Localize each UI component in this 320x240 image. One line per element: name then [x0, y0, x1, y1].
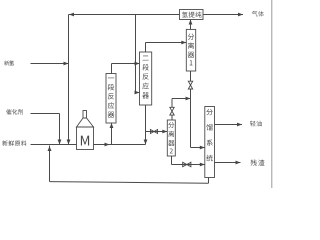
wire into fractionation: [191, 147, 205, 149]
pump body: [77, 127, 94, 150]
arrow reactor2 bottom into feed line: [144, 140, 148, 145]
arrow into reactor1 bottom: [110, 123, 114, 128]
wire offgas line: [203, 14, 243, 16]
wire reactor2 branch to separator2: [146, 131, 168, 133]
page edge line right: [271, 0, 273, 188]
box separator1 分离器1: [186, 29, 195, 71]
box fractionation 分馏系统: [205, 107, 215, 178]
arrow into fractionation feed: [200, 146, 205, 150]
wire catalyst downcomer: [59, 114, 61, 145]
wire reactor1 top outlet: [112, 64, 140, 74]
valve V1 below separator1: [188, 81, 192, 89]
wire H2 stub into reactor2: [136, 92, 140, 94]
arrow into separator2: [162, 130, 167, 134]
arrow overhead joins bottoms line: [186, 97, 191, 101]
arrow residue: [236, 161, 241, 165]
box reactor1 一段反应器: [106, 74, 116, 124]
arrow light-oil: [237, 123, 242, 127]
arrow fresh-H2: [64, 62, 69, 66]
arrow recycle into feed line: [48, 146, 52, 151]
wire residue line: [215, 162, 241, 164]
wire separator2 bottoms: [172, 156, 205, 165]
arrow into separator1: [181, 41, 186, 45]
label 残渣: [251, 160, 265, 166]
wire pump outlet: [94, 144, 146, 146]
wire separator2 overhead header: [172, 98, 191, 100]
label 分馏系统: [206, 109, 213, 161]
arrow down into feed line: [67, 140, 71, 145]
label 分离器1: [188, 34, 195, 66]
wire separator1 bottoms upper: [190, 71, 192, 81]
label 催化剂: [6, 109, 23, 114]
wire bottom recycle run: [50, 182, 209, 184]
wire fresh-H2 line: [31, 63, 69, 65]
arrow separator2 into fractionation: [200, 163, 205, 167]
pump letter M: [81, 136, 89, 146]
wire recycle-H2 top header: [69, 14, 180, 16]
valve V4 separator2 outlet: [183, 162, 191, 166]
label 一段反应器: [108, 78, 115, 118]
arrow catalyst into feed: [58, 140, 62, 145]
wire bottom recycle riser: [49, 146, 51, 182]
arrow offgas: [238, 13, 243, 17]
wire fractionation bottoms drop: [208, 178, 210, 184]
arrow into reactor2 lower inlet: [135, 91, 140, 95]
label 新鲜原料: [2, 140, 26, 146]
wire catalyst horizontal: [31, 113, 60, 115]
valve V2 above separator2: [170, 107, 174, 115]
wire feed line to pump: [31, 144, 77, 146]
label 分离器2: [168, 122, 174, 153]
wire separator1 bottoms lower: [190, 89, 192, 148]
wire reactor2 top outlet: [146, 43, 187, 53]
label 气体: [252, 11, 264, 17]
label 氢提纯: [182, 12, 201, 18]
wire H2 branch to reactor2: [135, 15, 137, 93]
wire separator2 overhead riser: [171, 99, 173, 121]
wire reactor2 bottom downcomer: [145, 105, 147, 145]
label 二段反应器: [142, 56, 149, 99]
box separator2 分离器2: [167, 120, 175, 156]
pump shoulder: [77, 118, 94, 127]
wire riser to reactor1: [111, 123, 113, 145]
label 新氢: [4, 60, 14, 65]
label 轻油: [250, 121, 262, 127]
box H2-purifier 氢提纯: [180, 10, 204, 20]
pump neck: [83, 111, 87, 119]
arrow into purifier: [189, 20, 193, 25]
wire light-oil line: [215, 124, 243, 126]
box reactor2 二段反应器: [140, 52, 152, 105]
wire recycle-H2 downcomer: [68, 15, 70, 145]
wire separator1 top to purifier: [190, 20, 192, 30]
arrow into reactor2 upper inlet: [135, 62, 140, 66]
valve V3 before separator2: [150, 130, 157, 134]
arrow pump outlet: [105, 143, 110, 147]
arrow left on top header: [69, 13, 74, 17]
